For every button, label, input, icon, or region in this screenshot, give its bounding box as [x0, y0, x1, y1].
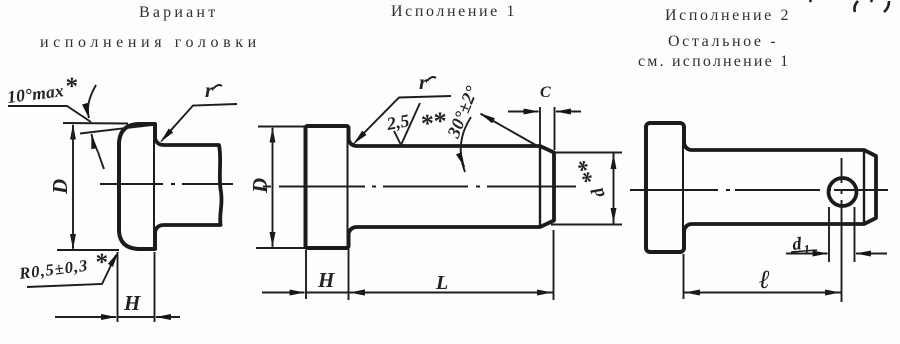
svg-text:L: L [435, 272, 448, 294]
head (version 2) [646, 123, 684, 252]
head taper line (10 deg) [80, 125, 152, 134]
30°±2° angle dimension [443, 82, 540, 172]
header: Вариант исполнения головки [40, 4, 261, 51]
svg-text:1: 1 [803, 241, 811, 257]
H dimension (left view) [55, 252, 180, 322]
svg-text:r: r [419, 70, 428, 94]
head (version 1) [306, 126, 349, 248]
l dimension [684, 254, 842, 299]
svg-text:D: D [248, 178, 272, 194]
centerline [100, 183, 233, 185]
C dimension (chamfer) [508, 107, 581, 150]
centerline [263, 186, 576, 188]
chamfer edge line (view 2) [863, 150, 865, 224]
svg-text:ℓ: ℓ [759, 265, 770, 294]
svg-text:Остальное -: Остальное - [668, 33, 778, 50]
d1 label [791, 233, 817, 257]
label R0,5±0,3* with leader [17, 249, 118, 287]
header: Исполнение 2 [638, 7, 791, 70]
page-top cut-off remnant marks [810, 0, 889, 12]
svg-text:10°max: 10°max [6, 80, 65, 107]
svg-text:30°±2°: 30°±2° [443, 82, 482, 141]
svg-text:Исполнение 1: Исполнение 1 [391, 3, 517, 20]
svg-text:см. исполнение 1: см. исполнение 1 [638, 53, 790, 70]
H dimension (middle) [262, 249, 375, 300]
head outline (variant) [119, 124, 155, 249]
svg-text:H: H [123, 291, 141, 315]
r label with leader (left view) [161, 78, 237, 142]
horizontal centerline (view 2) [630, 189, 888, 191]
shank with chamfered end [349, 139, 555, 234]
svg-text:R0,5±0,3: R0,5±0,3 [17, 256, 89, 283]
svg-text:C: C [540, 84, 551, 101]
d** dimension (middle, right end) [551, 153, 622, 225]
vertical centerline of hole [841, 158, 843, 302]
svg-text:d: d [587, 184, 609, 200]
svg-text:исполнения головки: исполнения головки [40, 34, 261, 51]
svg-text:D: D [48, 179, 72, 195]
L dimension [349, 230, 554, 300]
svg-text:H: H [317, 268, 335, 292]
hole d1 [829, 178, 857, 206]
svg-text:Вариант: Вариант [139, 4, 218, 21]
roughness mark 2,5/** [384, 103, 449, 145]
svg-text:r: r [205, 78, 214, 102]
chamfer edge line [539, 147, 541, 226]
shank (broken off) [155, 138, 222, 232]
D dimension (left view) [57, 123, 128, 250]
d1 dimension [786, 207, 887, 262]
r label with leader (middle) [354, 70, 451, 144]
D dimension (middle) [256, 127, 305, 249]
shank with hole and chamfered end [684, 143, 876, 231]
svg-text:*: * [63, 73, 79, 101]
svg-text:**: ** [573, 154, 606, 186]
svg-text:Исполнение 2: Исполнение 2 [665, 7, 791, 24]
label 10°max* with leader [6, 73, 104, 169]
